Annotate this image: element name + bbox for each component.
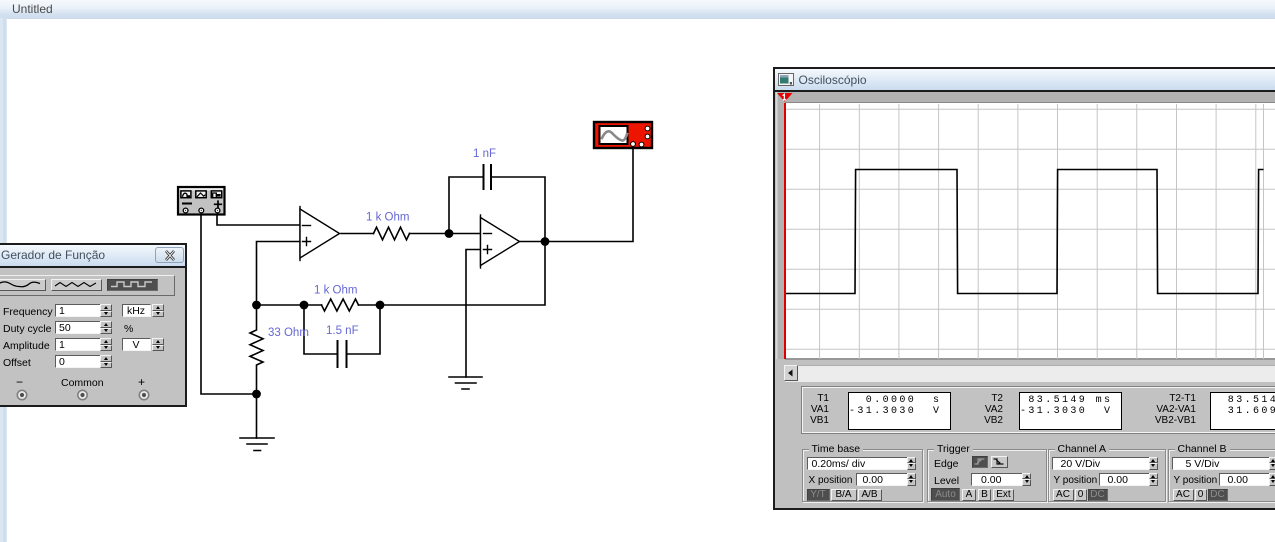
Channel B group <box>1168 449 1275 502</box>
Offset row <box>3 357 31 369</box>
wire C1 right plate to output node C <box>491 177 545 242</box>
terminal labels <box>16 375 23 389</box>
trigger position marker <box>777 93 793 103</box>
wire U2 output to node C <box>520 241 546 243</box>
scope window icon <box>778 73 794 86</box>
Time base group <box>802 449 923 502</box>
display bottom shade <box>785 358 1275 360</box>
svg-text:1 nF: 1 nF <box>473 148 496 160</box>
resistor R2 1 k Ohm <box>322 299 359 311</box>
svg-text:1 k Ohm: 1 k Ohm <box>314 285 357 297</box>
oscilloscope probe icon XSC1 <box>594 122 652 148</box>
ground symbol GND1 <box>240 438 274 451</box>
grid <box>786 104 1275 359</box>
wire FG plus terminal to U1 inverting input <box>217 215 300 225</box>
graticule display <box>785 102 1275 358</box>
waveform selector bar <box>0 275 175 296</box>
channel A square wave trace <box>786 169 1264 293</box>
column T2 labels <box>962 393 1003 404</box>
Trigger group <box>927 449 1047 502</box>
capacitor C1 1 nF plates <box>484 165 492 189</box>
readout T2 <box>1019 392 1122 430</box>
function generator instrument icon XFG1 <box>178 187 225 215</box>
op-amp U2 <box>481 215 520 268</box>
wire U1 output to resistor R1 <box>341 233 374 235</box>
readout T2-T1 <box>1210 392 1275 430</box>
oscilloscope instrument window <box>773 67 1275 510</box>
resistor R3 33 Ohm vertical <box>250 305 263 394</box>
wire R2 leads <box>304 304 380 306</box>
Channel A group <box>1048 449 1166 502</box>
svg-text:1 k Ohm: 1 k Ohm <box>366 212 409 224</box>
wire node A to U2 inverting input <box>449 233 481 235</box>
bezel shading above display <box>776 92 1275 102</box>
wire node E to node B <box>257 304 305 306</box>
scrollbar track <box>785 365 1275 382</box>
junction node A <box>445 229 454 238</box>
wire node C to scope probe <box>545 149 633 242</box>
svg-text:1.5 nF: 1.5 nF <box>326 325 359 337</box>
close button <box>155 247 185 263</box>
wire U2 noninverting input to ground stem <box>466 250 481 378</box>
readout T1 <box>848 392 951 430</box>
Amplitude row <box>3 340 50 352</box>
triangle button <box>51 279 102 291</box>
wire R1 to node A <box>410 233 450 235</box>
junction node C <box>541 237 550 246</box>
wire node E down to capacitor C2 <box>304 305 338 354</box>
wire C2 right plate up to node D <box>347 305 381 354</box>
ground symbol GND2 <box>449 377 482 389</box>
wire node G down to ground <box>256 394 258 438</box>
wire FG common terminal down and right to node G <box>201 215 257 394</box>
junction node D <box>376 301 385 310</box>
Frequency row <box>3 306 53 318</box>
function generator panel window <box>0 243 187 407</box>
main window title bar <box>0 0 1275 19</box>
svg-text:33 Ohm: 33 Ohm <box>268 327 309 339</box>
terminals <box>0 387 172 405</box>
wire U1 noninverting input left and down to node B <box>257 242 301 306</box>
wire node A up to capacitor C1 <box>449 177 484 234</box>
scrollbar left button <box>784 365 799 382</box>
op-amp U1 <box>300 207 340 261</box>
column T2-T1 labels <box>1132 393 1196 404</box>
trigger time cursor <box>784 103 786 360</box>
resistor R1 1 k Ohm <box>374 227 410 240</box>
column T1 labels <box>802 393 829 404</box>
sine button <box>0 279 46 291</box>
readout panel <box>801 386 1275 434</box>
Duty cycle row <box>3 323 51 335</box>
junction node G <box>252 390 261 399</box>
junction node B <box>252 301 261 310</box>
bezel shading left of display <box>776 92 786 359</box>
wire node C down feedback to node D <box>380 242 545 306</box>
workspace left strip <box>0 18 7 542</box>
square button (selected) <box>107 279 158 291</box>
capacitor C2 1.5 nF plates <box>338 341 347 367</box>
junction node E <box>300 301 309 310</box>
